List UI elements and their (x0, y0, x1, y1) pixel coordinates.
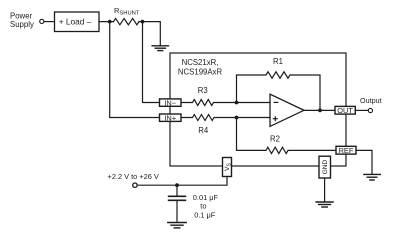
svg-text:VS: VS (224, 162, 232, 171)
svg-text:R3: R3 (198, 86, 208, 95)
svg-text:R4: R4 (198, 126, 209, 135)
pin REF (336, 146, 356, 154)
output terminal (368, 108, 372, 112)
svg-text:IN+: IN+ (164, 113, 176, 122)
svg-text:Output: Output (360, 96, 382, 105)
wire shunt to ground (139, 22, 160, 46)
op-amp U1 (270, 94, 304, 126)
wire load to shunt node (99, 21, 114, 23)
svg-text:NCS21xR,: NCS21xR, (182, 58, 219, 67)
svg-text:R2: R2 (270, 135, 280, 144)
pin IN- (160, 99, 182, 106)
wire GND pin to ground (324, 178, 326, 202)
ground at REF (364, 174, 380, 180)
svg-text:+ Load –: + Load – (59, 17, 92, 27)
wire R3 to op-amp minus input (237, 102, 271, 104)
wire OUT pin to output terminal (355, 109, 368, 111)
load box (55, 12, 100, 32)
ground at GND pin (316, 202, 333, 207)
svg-text:+2.2 V to +26 V: +2.2 V to +26 V (108, 172, 159, 181)
wire terminal to load (44, 21, 55, 23)
pin OUT (335, 106, 355, 114)
supply terminal (133, 183, 137, 187)
wire R4 to op-amp plus input (237, 117, 271, 119)
svg-text:Power: Power (10, 11, 33, 20)
svg-text:Supply: Supply (10, 20, 34, 29)
resistor R3 (181, 100, 237, 106)
resistor R4 (181, 115, 237, 121)
node plus row (235, 116, 239, 120)
ground at shunt (152, 46, 168, 51)
ground at capacitor (168, 223, 186, 228)
node minus row (235, 101, 239, 105)
wire shunt right node down to IN- (143, 22, 160, 103)
node right of RSHUNT (141, 20, 145, 24)
svg-text:NCS199AxR: NCS199AxR (178, 67, 223, 76)
pin VS (223, 158, 232, 177)
wire REF to ground (356, 150, 372, 174)
svg-text:REF: REF (339, 146, 354, 155)
svg-text:IN−: IN− (164, 98, 176, 107)
wire op-amp output to OUT pin (304, 109, 335, 111)
resistor R2 (237, 118, 337, 154)
node output (318, 109, 322, 113)
IC boundary NCS21xR (170, 53, 346, 166)
capacitor C1 bypass (176, 185, 178, 196)
pin GND (319, 156, 331, 178)
svg-text:0.1 μF: 0.1 μF (194, 210, 216, 219)
power supply terminal (40, 19, 44, 23)
pin IN+ (160, 114, 182, 121)
wire shunt left node down to IN+ (110, 22, 160, 118)
svg-text:OUT: OUT (337, 106, 353, 115)
svg-text:GND: GND (322, 160, 329, 175)
wire supply rail to VS pin (138, 177, 227, 186)
node left of RSHUNT (108, 20, 112, 24)
svg-text:R1: R1 (273, 57, 283, 66)
node capacitor tap (175, 183, 179, 187)
resistor RSHUNT (114, 18, 140, 24)
resistor R1 feedback (237, 72, 321, 111)
svg-text:0.01 μF: 0.01 μF (193, 193, 219, 202)
